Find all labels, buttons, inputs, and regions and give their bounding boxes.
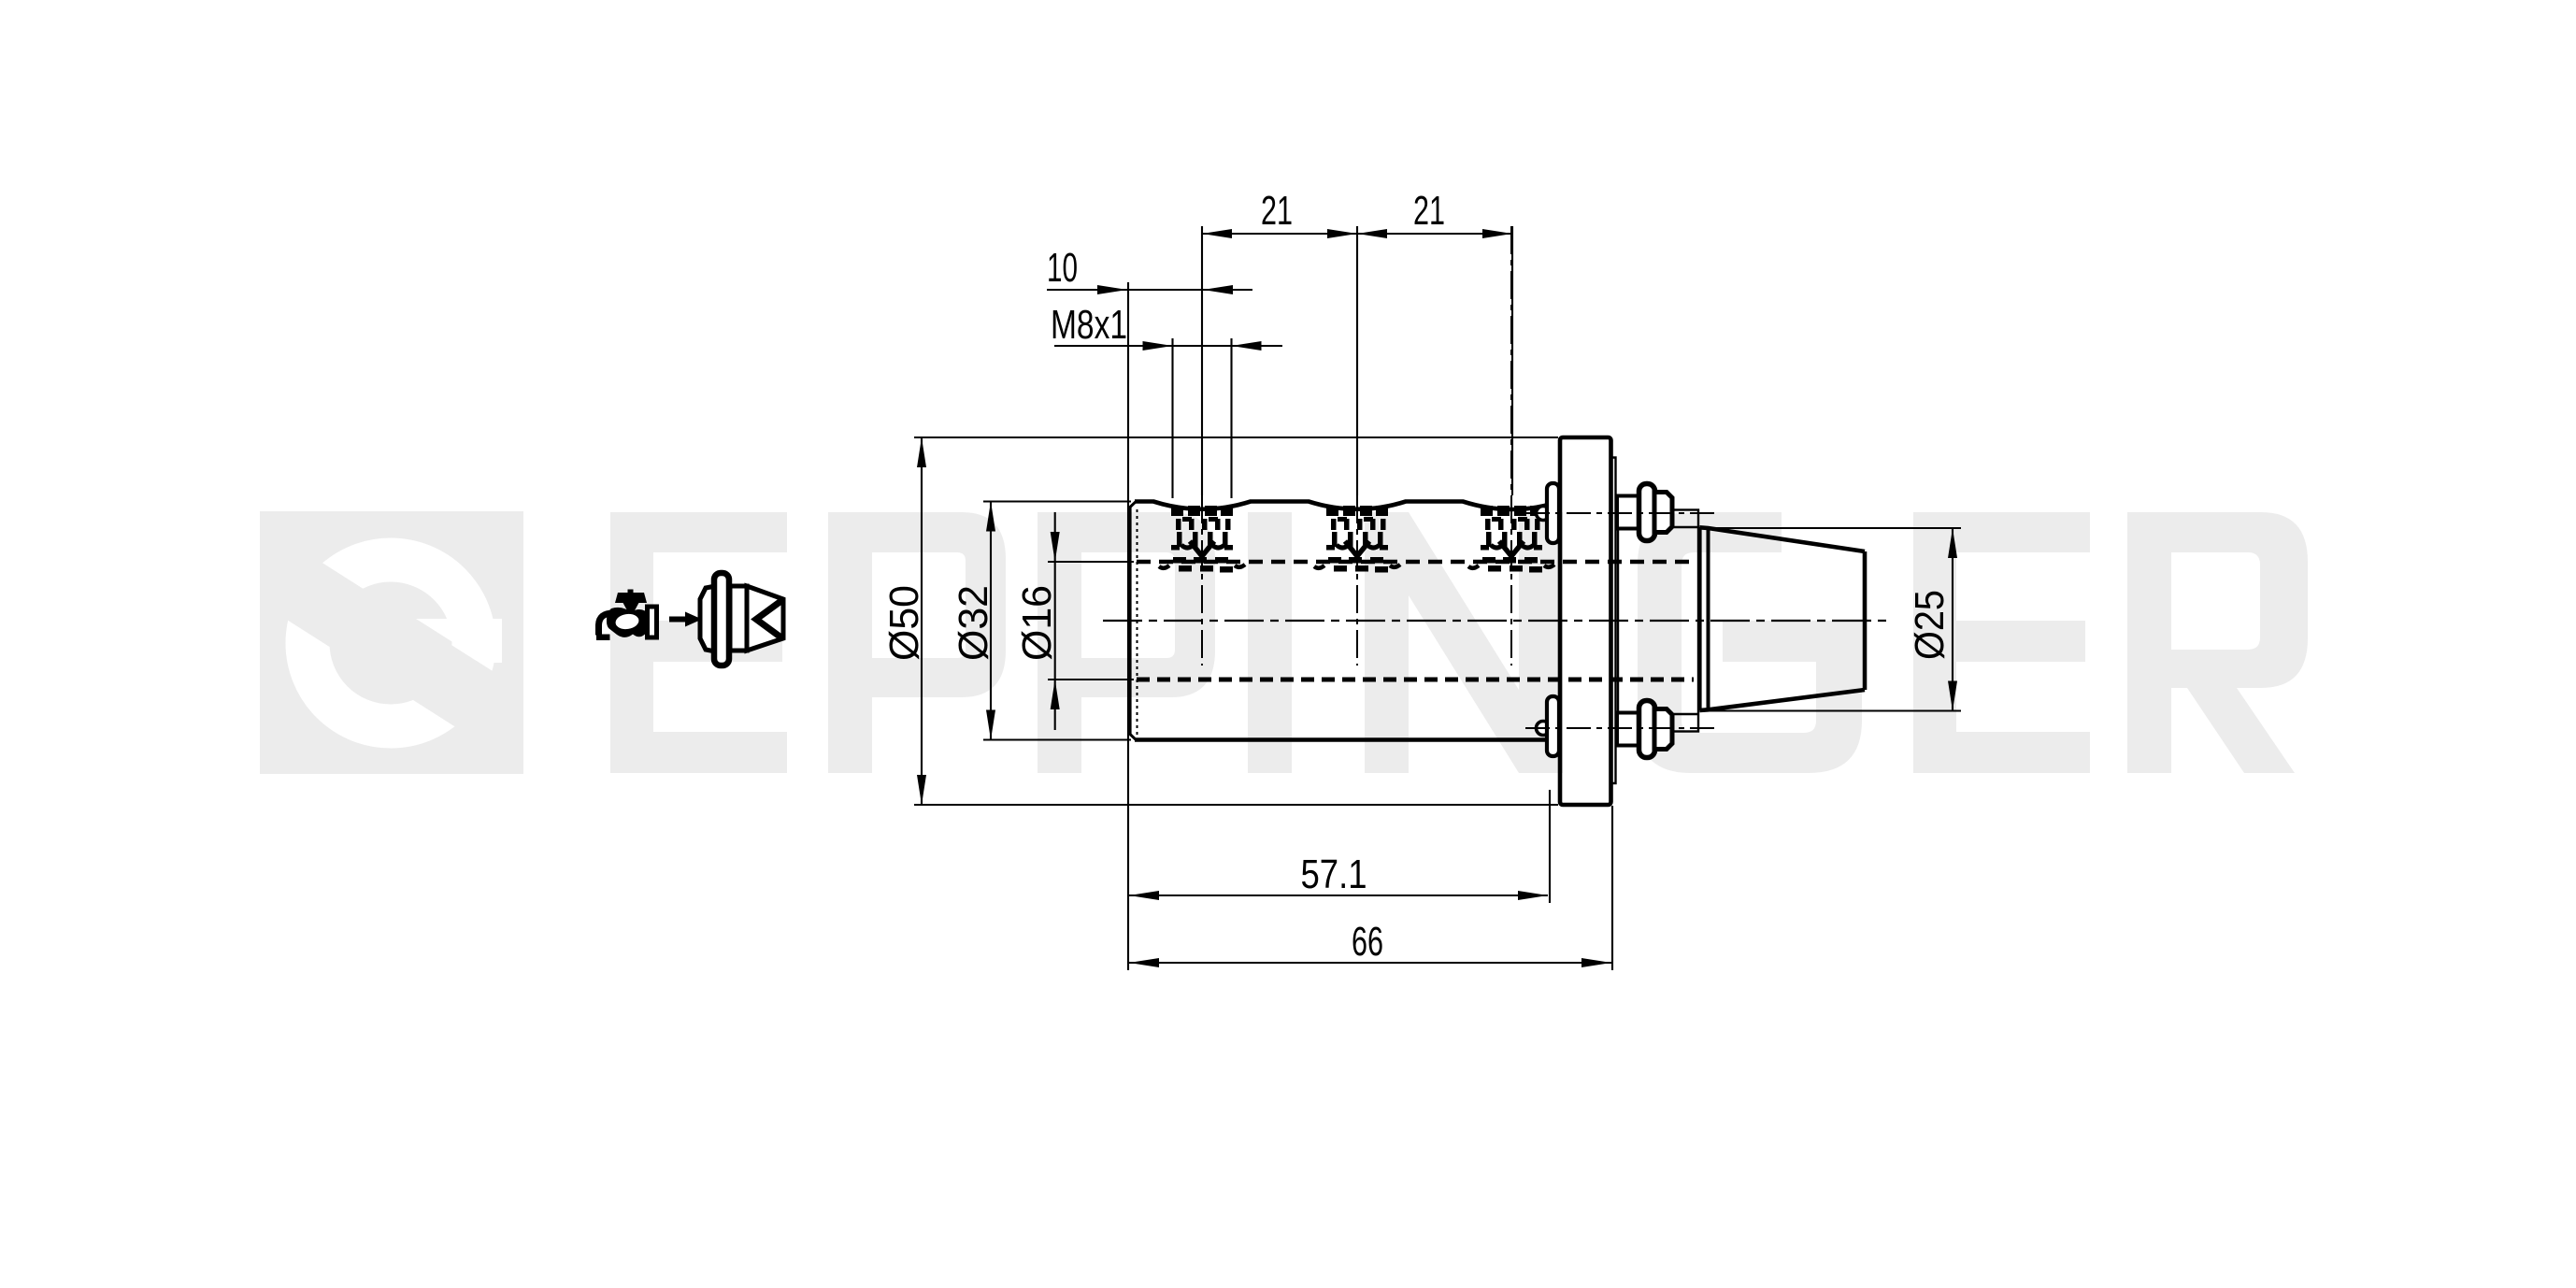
coolant tap icon	[596, 590, 657, 641]
watermark logo square	[260, 511, 523, 774]
Ø16 bore hidden lines	[1137, 560, 1694, 564]
svg-text:M8x1: M8x1	[1051, 302, 1127, 348]
dim 21 / 21	[1202, 233, 1512, 235]
dim Ø16	[1048, 561, 1134, 563]
clamp tab bottom	[1537, 722, 1551, 736]
dim 66	[1129, 962, 1611, 964]
watermark text EPPINGER	[610, 512, 2308, 773]
dim Ø32	[983, 500, 1131, 502]
svg-text:57.1: 57.1	[1301, 852, 1367, 897]
dim 10	[1047, 289, 1252, 291]
adapter block	[1618, 510, 1698, 732]
svg-text:Ø16: Ø16	[1014, 585, 1060, 661]
stud bottom	[1617, 713, 1639, 746]
body outline (Ø32 cylinder)	[1129, 502, 1556, 740]
flange (Ø50)	[1560, 437, 1611, 805]
dim Ø25	[1704, 527, 1961, 529]
svg-text:21: 21	[1413, 188, 1445, 234]
stud centerlines	[1525, 512, 1720, 514]
dim M8x1	[1054, 345, 1282, 347]
dim 57.1	[1129, 894, 1548, 896]
dim Ø50	[914, 436, 1558, 438]
svg-text:10: 10	[1047, 245, 1078, 291]
svg-text:Ø50: Ø50	[881, 585, 927, 661]
svg-text:21: 21	[1261, 188, 1293, 234]
thread centerlines	[1201, 226, 1203, 665]
step ring behind flange	[1611, 458, 1616, 784]
stud top	[1617, 496, 1639, 529]
collet chuck icon	[669, 573, 783, 665]
svg-text:Ø25: Ø25	[1907, 590, 1953, 660]
svg-text:Ø32: Ø32	[951, 585, 996, 661]
svg-text:66: 66	[1352, 919, 1383, 965]
clamp tab top	[1537, 507, 1551, 521]
cone (Ø25 collet nose)	[1699, 527, 1865, 710]
main centerline	[1103, 620, 1888, 622]
